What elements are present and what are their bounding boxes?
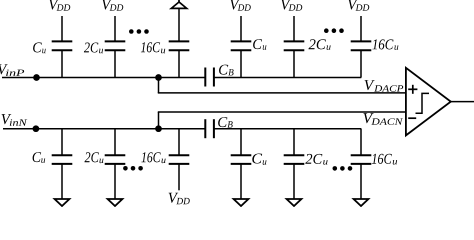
capacitor 16Cu top-left column C [169,8,190,78]
wire top rail right segment [214,77,361,79]
node VinP junction dot [34,75,39,80]
capacitor 2Cu top-left column B [105,16,126,78]
capacitor Cu bottom-left column A [52,129,73,199]
label 16Cu bottom-left [141,152,165,163]
wire comparator output [451,101,474,103]
ground bottom-right column F [354,199,369,206]
label 2Cu bottom-right [305,154,327,165]
label VDD top column D [230,0,251,11]
label Cu top-left [33,42,46,53]
capacitor Cu top-right column D [231,16,252,78]
label VDD top column B [102,0,123,11]
comparator clock step symbol [416,93,430,113]
label VDD top column E [281,0,302,11]
label 16Cu top-left [141,42,165,53]
label 16Cu top-right [372,39,398,50]
wire VinN rail left segment [3,128,205,130]
label VDD bottom column C [169,193,190,204]
comparator plus sign [408,85,417,94]
op-amp comparator U1 [406,68,451,136]
arrow symbol top of column C [171,0,186,8]
comparator minus sign [408,117,416,119]
ground bottom-right column D [234,199,249,206]
dots ellipsis bottom-left [123,166,143,171]
label 2Cu top-left [84,42,103,53]
capacitor CB bottom bridge [205,119,214,138]
ground bottom-left column B [108,199,123,206]
capacitor CB top bridge [205,68,214,87]
label CB top [219,65,234,76]
dots ellipsis top-left [129,29,149,34]
capacitor 16Cu top-right column F [351,16,372,78]
wire VDACP branch vertical [158,78,160,93]
wire VDACN branch vertical [158,112,160,129]
dots ellipsis top-right [324,28,344,33]
wire VinP rail left segment [2,77,205,79]
dots ellipsis bottom-right [333,166,353,171]
label VDD top column A [49,0,70,11]
capacitor 16Cu bottom-left column C [169,129,190,191]
capacitor 2Cu bottom-left column B [105,129,126,199]
label VDACN [363,113,403,125]
node VDACP branch junction dot [156,75,161,80]
capacitor Cu bottom-right column D [231,129,252,199]
node VinN junction dot [33,126,38,131]
label Cu top-right [253,39,266,50]
label VinN [2,114,28,126]
capacitor 2Cu bottom-right column E [284,129,305,199]
wire bottom rail right segment [214,128,361,130]
label 2Cu bottom-left [85,152,104,163]
label VDD top column F [348,0,369,11]
label 2Cu top-right [309,39,331,50]
ground bottom-right column E [287,199,302,206]
label Cu bottom-left [33,152,46,163]
capacitor Cu top-left column A [52,16,73,78]
wire VDACP line [158,92,406,94]
label Cu bottom-right [252,153,266,164]
label 16Cu bottom-right [372,154,397,165]
node VDACN branch junction dot [156,126,161,131]
label VinP [0,64,24,76]
capacitor 2Cu top-right column E [284,16,305,78]
label VDACP [365,80,404,92]
capacitor 16Cu bottom-right column F [351,129,372,199]
wire VDACN line [158,111,406,113]
ground bottom-left column A [55,199,70,206]
label CB bottom [218,117,233,128]
